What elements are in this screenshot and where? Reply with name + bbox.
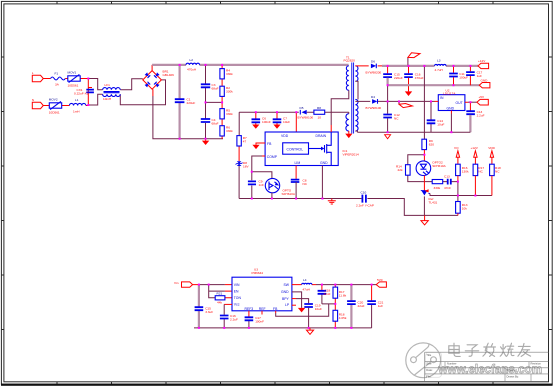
svg-text:+12V: +12V	[471, 146, 479, 150]
svg-text:FB: FB	[273, 307, 278, 311]
svg-text:SW: SW	[284, 283, 290, 287]
svg-text:EN: EN	[234, 289, 239, 293]
svg-text:1mH: 1mH	[73, 109, 80, 113]
svg-text:10uF: 10uF	[283, 120, 290, 124]
svg-text:R8: R8	[317, 106, 321, 110]
svg-text:Revision: Revision	[531, 362, 542, 366]
svg-text:R21: R21	[217, 292, 223, 296]
svg-text:Drawn By:: Drawn By:	[507, 374, 520, 378]
svg-text:LP: LP	[285, 303, 290, 307]
svg-text:GND: GND	[481, 79, 489, 83]
svg-text:TON: TON	[234, 296, 242, 300]
svg-text:1uF: 1uF	[378, 304, 383, 308]
svg-text:LIM: LIM	[295, 161, 301, 165]
svg-text:VIN: VIN	[234, 283, 240, 287]
svg-text:2.2uF: 2.2uF	[230, 318, 238, 322]
svg-text:D4: D4	[371, 95, 375, 99]
svg-text:BPY: BPY	[282, 297, 290, 301]
svg-text:MOV1: MOV1	[68, 71, 77, 75]
svg-text:3.3uF: 3.3uF	[205, 310, 213, 314]
svg-text:BYW98200: BYW98200	[366, 70, 382, 74]
svg-text:Title: Title	[426, 353, 431, 357]
svg-text:330k: 330k	[226, 90, 233, 94]
svg-text:2.2uF: 2.2uF	[477, 113, 485, 117]
svg-text:4.7uH: 4.7uH	[435, 68, 443, 72]
svg-text:VIPER2014: VIPER2014	[343, 153, 359, 157]
svg-text:4.05k: 4.05k	[339, 316, 347, 320]
svg-text:330k: 330k	[226, 112, 233, 116]
svg-text:L3: L3	[437, 58, 441, 62]
svg-text:47uH: 47uH	[303, 287, 310, 291]
svg-text:10D561: 10D561	[49, 110, 60, 114]
svg-text:220uF: 220uF	[394, 76, 403, 80]
svg-text:NC: NC	[478, 170, 483, 174]
svg-text:22nF: 22nF	[324, 292, 331, 296]
svg-text:NC: NC	[303, 182, 308, 186]
svg-text:100nF: 100nF	[255, 320, 264, 324]
svg-text:330k: 330k	[226, 72, 233, 76]
svg-text:Number: Number	[447, 362, 457, 366]
svg-text:10D561: 10D561	[68, 83, 79, 87]
svg-text:100nF: 100nF	[262, 120, 271, 124]
svg-text:N: N	[32, 98, 34, 102]
svg-text:TL431: TL431	[429, 200, 438, 204]
svg-text:220uF: 220uF	[187, 101, 196, 105]
svg-text:11.8k: 11.8k	[339, 294, 347, 298]
svg-text:44k: 44k	[217, 300, 222, 304]
svg-text:CONTROL: CONTROL	[287, 147, 304, 151]
svg-text:F1: F1	[55, 72, 59, 76]
svg-text:GND: GND	[320, 161, 328, 165]
svg-text:22uF: 22uF	[358, 304, 365, 308]
svg-text:18V: 18V	[243, 164, 249, 168]
svg-text:LF1: LF1	[105, 83, 111, 87]
svg-text:VDD: VDD	[488, 146, 495, 150]
svg-text:C13: C13	[444, 175, 450, 179]
svg-text:Vcc: Vcc	[234, 303, 240, 307]
svg-text:47: 47	[243, 139, 247, 143]
svg-text:470uF: 470uF	[415, 76, 424, 80]
svg-text:IN: IN	[440, 96, 444, 100]
svg-text:Date:: Date:	[426, 368, 433, 372]
svg-text:NC: NC	[495, 170, 500, 174]
svg-text:COMP: COMP	[267, 155, 278, 159]
svg-text:68uF: 68uF	[212, 121, 219, 125]
svg-text:File:: File:	[426, 374, 431, 378]
svg-text:Vin: Vin	[174, 281, 179, 285]
svg-text:2.2nF Y-CAP: 2.2nF Y-CAP	[356, 203, 374, 207]
svg-text:L4: L4	[303, 278, 307, 282]
svg-text:VO: VO	[454, 146, 459, 150]
svg-text:D6: D6	[371, 60, 375, 64]
svg-text:10: 10	[318, 116, 322, 120]
svg-text:VDD: VDD	[281, 134, 289, 138]
svg-text:SFH610A: SFH610A	[432, 164, 446, 168]
svg-text:Size: Size	[426, 362, 432, 366]
svg-text:10mH: 10mH	[103, 97, 111, 101]
svg-text:MOV2: MOV2	[49, 98, 58, 102]
svg-text:LD1117A: LD1117A	[443, 92, 456, 96]
svg-text:PM6644: PM6644	[252, 271, 264, 275]
svg-text:5V0: 5V0	[377, 278, 383, 282]
svg-text:100uF: 100uF	[459, 76, 468, 80]
svg-text:+12V: +12V	[478, 59, 486, 63]
svg-text:Sheet of: Sheet of	[507, 368, 517, 372]
svg-text:REF3: REF3	[245, 307, 254, 311]
svg-text:PQ2620: PQ2620	[344, 59, 356, 63]
svg-text:470uH: 470uH	[187, 68, 196, 72]
svg-text:GBL406: GBL406	[163, 73, 175, 77]
svg-text:10uF: 10uF	[437, 122, 444, 126]
svg-text:D5: D5	[300, 106, 304, 110]
svg-text:BYW98100: BYW98100	[298, 116, 314, 120]
svg-text:68uF: 68uF	[212, 87, 219, 91]
svg-text:1nF: 1nF	[259, 183, 264, 187]
svg-text:47nF: 47nF	[444, 186, 451, 190]
svg-text:10uF: 10uF	[315, 307, 322, 311]
svg-text:BYW98100: BYW98100	[366, 106, 382, 110]
svg-text:330k: 330k	[226, 129, 233, 133]
svg-text:OUT: OUT	[456, 101, 463, 105]
svg-text:L: L	[32, 71, 34, 75]
svg-text:130k: 130k	[462, 170, 469, 174]
svg-text:L2: L2	[190, 58, 194, 62]
svg-text:NC: NC	[394, 117, 399, 121]
svg-text:GND: GND	[447, 107, 455, 111]
svg-text:FB: FB	[267, 142, 272, 146]
svg-text:C10: C10	[361, 191, 367, 195]
svg-text:330k: 330k	[434, 186, 441, 190]
svg-text:620: 620	[429, 143, 434, 147]
svg-text:REF: REF	[259, 307, 266, 311]
svg-text:SFH610A: SFH610A	[282, 192, 296, 196]
svg-text:+5V: +5V	[479, 95, 486, 99]
svg-text:L1: L1	[75, 98, 79, 102]
svg-text:GND: GND	[281, 290, 289, 294]
svg-text:22k: 22k	[398, 168, 403, 172]
svg-text:DRAIN: DRAIN	[316, 134, 327, 138]
svg-text:10k: 10k	[462, 206, 467, 210]
svg-text:0.22uF-X2: 0.22uF-X2	[74, 92, 89, 96]
